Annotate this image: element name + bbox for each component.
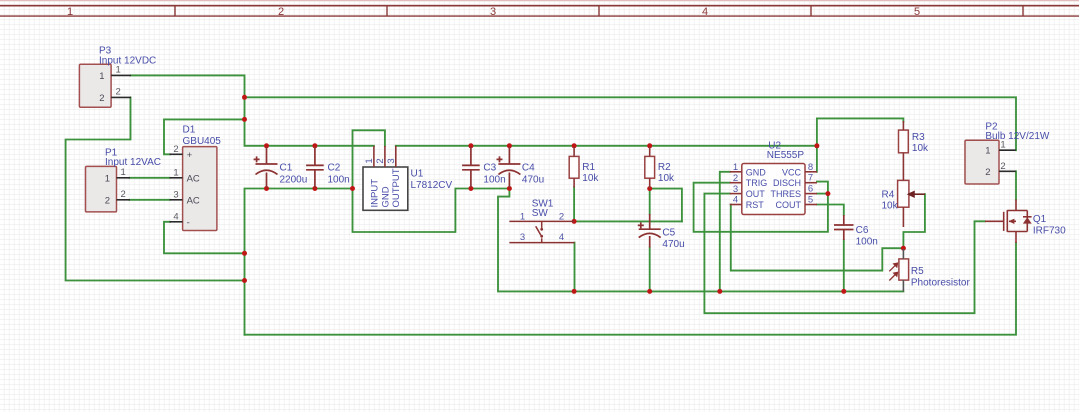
svg-text:R4: R4 [882, 189, 895, 200]
svg-text:1: 1 [985, 146, 990, 157]
svg-text:1: 1 [173, 167, 178, 178]
svg-text:470u: 470u [522, 175, 544, 186]
svg-text:GND: GND [380, 186, 391, 207]
svg-text:1: 1 [105, 173, 110, 184]
svg-text:4: 4 [733, 195, 738, 206]
svg-text:R2: R2 [658, 162, 671, 173]
svg-text:10k: 10k [658, 173, 675, 184]
svg-text:L7812CV: L7812CV [411, 180, 453, 191]
svg-text:TRIG: TRIG [746, 178, 768, 188]
svg-text:2: 2 [733, 173, 738, 184]
svg-text:D1: D1 [183, 124, 196, 135]
svg-text:COUT: COUT [776, 200, 802, 210]
svg-text:5: 5 [914, 6, 920, 18]
svg-text:4: 4 [702, 6, 708, 18]
svg-text:C1: C1 [280, 163, 293, 174]
svg-text:100n: 100n [856, 237, 878, 248]
svg-text:SW: SW [532, 208, 549, 219]
svg-text:Input 12VDC: Input 12VDC [99, 55, 156, 66]
svg-text:C6: C6 [856, 225, 869, 236]
svg-text:1: 1 [116, 65, 121, 76]
svg-text:1: 1 [733, 162, 738, 173]
svg-text:Q1: Q1 [1033, 214, 1047, 225]
svg-text:2: 2 [278, 6, 284, 18]
svg-text:4: 4 [559, 232, 564, 243]
svg-text:INPUT: INPUT [369, 179, 380, 208]
svg-text:2: 2 [985, 167, 990, 178]
svg-text:100n: 100n [483, 175, 505, 186]
svg-text:AC: AC [187, 173, 200, 184]
svg-text:Input 12VAC: Input 12VAC [105, 157, 161, 168]
svg-text:1: 1 [1000, 140, 1005, 151]
svg-text:+: + [187, 150, 193, 161]
svg-text:-: - [187, 217, 190, 228]
svg-text:C5: C5 [662, 227, 675, 238]
svg-text:1: 1 [121, 167, 126, 178]
svg-text:2: 2 [173, 144, 178, 155]
svg-text:3: 3 [490, 6, 496, 18]
svg-text:C4: C4 [522, 163, 535, 174]
svg-text:Bulb 12V/21W: Bulb 12V/21W [985, 131, 1049, 142]
svg-text:VCC: VCC [782, 167, 802, 177]
svg-text:8: 8 [808, 162, 813, 173]
svg-text:1: 1 [67, 6, 73, 18]
svg-text:RST: RST [746, 200, 765, 210]
svg-text:C3: C3 [483, 163, 496, 174]
svg-text:100n: 100n [328, 175, 350, 186]
svg-text:4: 4 [173, 211, 178, 222]
svg-text:6: 6 [808, 184, 813, 195]
svg-text:R3: R3 [912, 132, 925, 143]
svg-text:2: 2 [116, 87, 121, 98]
svg-text:2: 2 [99, 93, 104, 104]
svg-text:OUTPUT: OUTPUT [391, 168, 402, 207]
svg-text:GND: GND [746, 167, 767, 177]
svg-text:R1: R1 [582, 162, 595, 173]
svg-text:R5: R5 [911, 266, 924, 277]
svg-text:7: 7 [808, 173, 813, 184]
svg-text:2: 2 [1000, 161, 1005, 172]
svg-text:10k: 10k [882, 201, 899, 212]
svg-text:DISCH: DISCH [773, 178, 801, 188]
svg-text:1: 1 [99, 71, 104, 82]
svg-text:2: 2 [105, 195, 110, 206]
svg-text:3: 3 [386, 158, 397, 163]
svg-text:GBU405: GBU405 [183, 136, 222, 147]
svg-text:3: 3 [520, 232, 525, 243]
svg-text:AC: AC [187, 195, 200, 206]
svg-text:10k: 10k [582, 173, 599, 184]
svg-text:470u: 470u [662, 239, 684, 250]
svg-text:IRF730: IRF730 [1033, 226, 1066, 237]
svg-text:U1: U1 [411, 169, 424, 180]
svg-text:OUT: OUT [746, 189, 766, 199]
svg-text:10k: 10k [912, 143, 929, 154]
svg-text:1: 1 [364, 158, 375, 163]
svg-text:2: 2 [559, 211, 564, 222]
svg-text:5: 5 [808, 195, 813, 206]
svg-text:2200u: 2200u [280, 175, 308, 186]
svg-text:2: 2 [375, 158, 386, 163]
svg-text:2: 2 [121, 189, 126, 200]
svg-text:1: 1 [520, 211, 525, 222]
svg-text:Photoresistor: Photoresistor [911, 278, 971, 289]
svg-text:NE555P: NE555P [767, 150, 805, 161]
svg-text:THRES: THRES [770, 189, 801, 199]
svg-text:3: 3 [733, 184, 738, 195]
svg-text:3: 3 [173, 189, 178, 200]
svg-text:C2: C2 [328, 163, 341, 174]
